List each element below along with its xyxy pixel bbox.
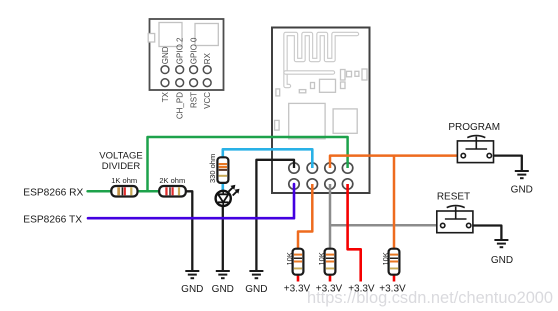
LED D1 [216,185,240,206]
svg-text:GND: GND [245,284,267,295]
svg-text:TX: TX [161,91,170,102]
wire: gray RST to RESET switch [330,224,441,227]
wire: green ESP RX net [88,190,112,193]
wire: orange GPIO0 pull-up drop [393,156,396,250]
wire: green riser to module RX pin [148,137,348,191]
svg-text:CH_PD: CH_PD [176,92,185,119]
svg-text:VCC: VCC [203,92,212,109]
svg-text:+3.3V: +3.3V [348,284,375,295]
resistor 10K (GPIO0 pull-up) [389,249,400,275]
ground (LED) [216,271,230,278]
pushbutton PROGRAM [457,136,493,163]
svg-text:RESET: RESET [437,192,470,203]
ESP-01 module U1 [272,28,370,194]
svg-text:2K ohm: 2K ohm [159,176,185,185]
svg-text:GPIO 0: GPIO 0 [190,37,199,64]
wire: purple ESP TX net [88,184,294,218]
wire: black RESET switch to ground [470,226,501,240]
svg-text:10K: 10K [381,252,390,265]
ground (PROGRAM) [515,171,529,178]
svg-text:GND: GND [511,185,533,196]
svg-text:+3.3V: +3.3V [284,284,311,295]
svg-text:GPIO 2: GPIO 2 [176,37,185,64]
wire: orange CH_PD pull-up [298,184,312,250]
wire: black GND from module pin1 top to ground [256,160,294,271]
ESP8266 USB adapter board [150,19,224,90]
svg-text:ESP8266 RX: ESP8266 RX [23,188,83,199]
wire: orange GPIO0 to PROGRAM switch [330,156,461,168]
resistor 1K ohm [111,186,137,197]
svg-text:+3.3V: +3.3V [316,284,343,295]
module pins (2 rows of 4) [289,163,353,189]
ground (2K divider) [185,271,199,278]
wire: red lead 10K R2 to +3.3V [329,274,332,282]
wire: red VCC to +3.3V [348,184,361,282]
wire: cyan GPIO2 to 330 ohm resistor [223,149,312,168]
svg-text:10K: 10K [285,252,294,265]
svg-text:ESP8266 TX: ESP8266 TX [23,214,82,225]
svg-text:https://blog.csdn.net/chentuo2: https://blog.csdn.net/chentuo2000 [307,289,553,307]
ground (RESET) [494,240,508,247]
svg-text:+3.3V: +3.3V [379,284,406,295]
wire: green between 1K and 2K [137,190,159,193]
wire: black PROGRAM switch to ground [492,156,522,171]
adapter pins (2 rows of 4) [161,66,211,87]
adapter internal shield rectangles [148,23,218,47]
PCB antenna meander [286,34,358,86]
module component outlines [275,69,367,139]
svg-text:1K ohm: 1K ohm [111,176,137,185]
svg-text:GND: GND [161,46,170,64]
wire: red lead 10K R1 to +3.3V [297,274,300,282]
wire: black LED cathode to ground [222,206,224,272]
ground (module GND pin) [249,271,263,278]
resistor 10K (RST pull-up) [325,249,336,275]
svg-text:GND: GND [181,284,203,295]
svg-text:PROGRAM: PROGRAM [448,122,500,133]
svg-text:GND: GND [212,284,234,295]
svg-text:RST: RST [190,92,199,108]
svg-text:DIVIDER: DIVIDER [102,161,141,172]
svg-text:10K: 10K [317,252,326,265]
wire: red lead 10K R3 to +3.3V [393,274,396,282]
wire: black from 2K resistor to ground [186,191,192,271]
wire: cyan 330 ohm to LED anode [222,182,225,192]
pushbutton RESET [437,206,473,233]
svg-text:GND: GND [491,255,513,266]
resistor 2K ohm [159,186,186,197]
wire: gray RST pull-up [329,184,332,250]
svg-text:330 ohm: 330 ohm [208,154,217,183]
resistor 330 ohm [217,157,228,183]
resistor 10K (CH_PD pull-up) [293,249,304,275]
svg-text:RX: RX [203,52,212,64]
